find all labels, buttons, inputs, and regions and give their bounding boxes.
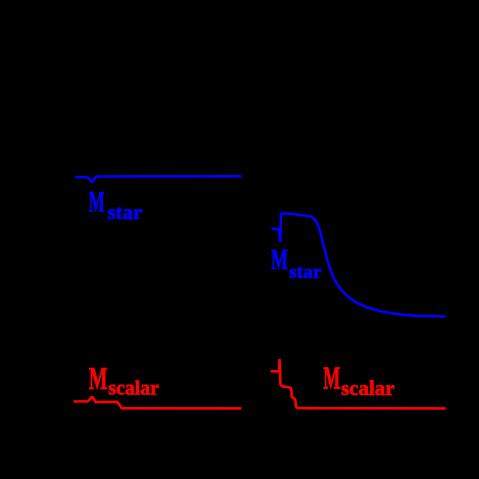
label M_star right	[271, 245, 322, 283]
svg-text:scalar: scalar	[108, 378, 159, 400]
curve M_scalar right panel (red)	[271, 359, 446, 409]
svg-text:M: M	[89, 185, 105, 218]
label M_star left	[89, 185, 143, 224]
curve M_scalar left panel (red)	[73, 397, 241, 408]
svg-text:M: M	[271, 245, 288, 276]
label M_scalar right	[323, 361, 394, 401]
svg-text:M: M	[323, 361, 340, 396]
svg-text:star: star	[289, 262, 322, 283]
svg-text:star: star	[108, 202, 143, 224]
label M_scalar left	[89, 361, 159, 399]
svg-text:M: M	[89, 361, 108, 396]
curve M_star right panel (blue)	[272, 213, 446, 316]
curve M_star left panel (blue)	[75, 176, 242, 182]
svg-text:scalar: scalar	[341, 376, 395, 400]
